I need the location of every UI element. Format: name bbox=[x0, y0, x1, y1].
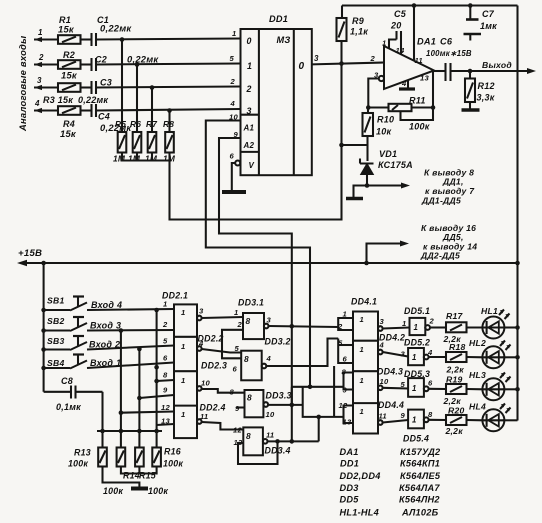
node row1/R5 bbox=[120, 37, 125, 42]
wire output line bbox=[451, 70, 529, 72]
svg-text:9: 9 bbox=[343, 386, 348, 395]
DD3.1 cross input wire bbox=[222, 330, 243, 359]
svg-text:V: V bbox=[249, 161, 255, 170]
svg-text:Вход 3: Вход 3 bbox=[90, 321, 121, 331]
NAND gate DD3.4 bbox=[243, 427, 263, 455]
resistor R1 15k bbox=[58, 35, 81, 44]
resistor R14 100k bbox=[117, 448, 126, 467]
svg-text:DD2.4: DD2.4 bbox=[200, 403, 226, 413]
input arrow 4 bbox=[34, 109, 58, 111]
svg-text:20: 20 bbox=[390, 21, 402, 31]
wire R13 bottom to ground bbox=[103, 467, 140, 488]
svg-text:DA1: DA1 bbox=[417, 37, 436, 47]
svg-text:0,22мк: 0,22мк bbox=[100, 23, 132, 34]
svg-text:ДД1,: ДД1, bbox=[442, 177, 464, 187]
+15V rail bbox=[26, 262, 518, 264]
wire R14-R16 bottoms bbox=[121, 467, 157, 474]
svg-text:12: 12 bbox=[233, 426, 242, 435]
svg-text:DD5.1: DD5.1 bbox=[404, 306, 430, 316]
gate DD4.3 output pin 10 bbox=[378, 386, 383, 391]
svg-text:SB3: SB3 bbox=[47, 336, 64, 346]
svg-text:8: 8 bbox=[247, 393, 252, 403]
resistor R19 2.2k bbox=[446, 384, 467, 394]
svg-text:SB2: SB2 bbox=[47, 316, 64, 326]
svg-text:C7: C7 bbox=[482, 9, 495, 19]
NOR gates DD4 K564LE5 bbox=[353, 312, 378, 434]
svg-text:R5: R5 bbox=[115, 119, 126, 129]
wire pin3 to feedback node bbox=[368, 79, 379, 108]
svg-text:Вход 4: Вход 4 bbox=[91, 300, 122, 310]
svg-text:ДД2-ДД5: ДД2-ДД5 bbox=[420, 251, 460, 261]
op-amp DA1 K157UD2 bbox=[384, 46, 434, 89]
NAND gate DD3.3 bbox=[245, 390, 264, 417]
DD4 input bar pins 5,6 bbox=[338, 344, 353, 346]
inverter DD5.4 bbox=[408, 410, 424, 429]
svg-text:6: 6 bbox=[343, 355, 348, 364]
svg-text:C5: C5 bbox=[394, 9, 407, 19]
svg-text:9: 9 bbox=[163, 386, 168, 395]
svg-text:13: 13 bbox=[343, 418, 352, 427]
svg-text:C3: C3 bbox=[100, 78, 112, 88]
DD4 input bar pins 8,9 bbox=[344, 373, 354, 390]
svg-text:100к: 100к bbox=[148, 486, 168, 496]
svg-text:5: 5 bbox=[338, 339, 343, 348]
svg-text:DD3: DD3 bbox=[340, 483, 359, 493]
input arrow 3 bbox=[34, 86, 58, 88]
top supply rail bbox=[342, 4, 518, 6]
svg-text:1: 1 bbox=[232, 29, 236, 38]
svg-text:8: 8 bbox=[163, 371, 168, 380]
multiplexer DD1 K564KP1 bbox=[241, 29, 312, 175]
svg-text:1: 1 bbox=[414, 323, 419, 332]
capacitor C8 0.1uF bbox=[44, 391, 71, 393]
svg-text:1: 1 bbox=[234, 308, 238, 317]
svg-text:0: 0 bbox=[247, 36, 252, 46]
svg-text:HL1: HL1 bbox=[481, 306, 498, 316]
svg-text:3: 3 bbox=[380, 317, 385, 326]
wire column C row3 to pin9/R15 bbox=[137, 347, 142, 352]
svg-text:10: 10 bbox=[201, 379, 210, 388]
svg-text:100к: 100к bbox=[163, 459, 183, 469]
wire SB1 row to DD2 pin1 bbox=[87, 309, 174, 310]
svg-text:0,1мк: 0,1мк bbox=[56, 402, 81, 412]
resistor R11 100k feedback bbox=[368, 106, 388, 108]
svg-text:1: 1 bbox=[412, 384, 417, 393]
svg-text:6: 6 bbox=[163, 354, 168, 363]
svg-text:1: 1 bbox=[38, 28, 43, 37]
svg-text:15к: 15к bbox=[61, 70, 78, 81]
svg-text:DD5.2: DD5.2 bbox=[404, 338, 430, 348]
svg-text:R9: R9 bbox=[352, 16, 364, 26]
svg-text:R11: R11 bbox=[409, 96, 426, 106]
svg-text:1: 1 bbox=[382, 39, 386, 48]
svg-text:2: 2 bbox=[337, 322, 343, 331]
svg-text:Аналоговые входы: Аналоговые входы bbox=[17, 36, 28, 132]
resistor R12 3.3k bbox=[469, 71, 471, 79]
LED HL1 AL102B bbox=[482, 317, 504, 339]
arrow to DD supply pins 8/7 bbox=[367, 184, 402, 186]
button SB2 bbox=[41, 328, 46, 333]
gate DD4.1 output pin 3 bbox=[378, 326, 383, 331]
svg-text:DA1: DA1 bbox=[340, 447, 359, 457]
svg-text:1: 1 bbox=[181, 410, 185, 419]
svg-text:C6: C6 bbox=[440, 37, 453, 47]
svg-text:10к: 10к bbox=[376, 127, 392, 137]
gate DD4.2 output pin 4 bbox=[378, 350, 383, 355]
svg-text:11: 11 bbox=[415, 56, 423, 65]
capacitor C7 1uF bbox=[468, 3, 473, 8]
wire A1 junction horizontal bbox=[292, 386, 344, 388]
svg-text:13: 13 bbox=[161, 417, 170, 426]
DD4 input bar pins 12,13 bbox=[344, 406, 354, 424]
wire rail to op-amp pin 11 bbox=[412, 3, 417, 8]
svg-text:1: 1 bbox=[412, 353, 417, 362]
svg-text:8: 8 bbox=[246, 431, 251, 441]
LED HL3 bbox=[482, 378, 504, 400]
capacitor C6 100uF output coupling bbox=[434, 70, 446, 72]
wire DD3.4 out riser bbox=[318, 417, 320, 442]
svg-text:R15: R15 bbox=[139, 471, 156, 481]
svg-text:2: 2 bbox=[370, 54, 376, 63]
svg-text:100к: 100к bbox=[68, 459, 88, 469]
svg-text:3: 3 bbox=[199, 307, 204, 316]
svg-text:C8: C8 bbox=[61, 376, 73, 386]
resistor R8 1M bbox=[165, 132, 174, 153]
svg-text:1: 1 bbox=[360, 376, 364, 385]
svg-text:15к: 15к bbox=[58, 24, 75, 35]
NAND gate DD3.2 bbox=[241, 351, 262, 381]
svg-text:DD4.2: DD4.2 bbox=[379, 333, 405, 343]
svg-text:HL1-HL4: HL1-HL4 bbox=[340, 508, 380, 518]
svg-text:3: 3 bbox=[314, 54, 319, 63]
svg-text:C2: C2 bbox=[95, 55, 107, 65]
wire row1 to DD1 pin 1 bbox=[96, 39, 241, 40]
button SB1 bbox=[41, 308, 46, 313]
svg-text:C4: C4 bbox=[98, 112, 110, 122]
svg-text:5: 5 bbox=[401, 380, 406, 389]
resistor R17 2.2k bbox=[446, 322, 467, 332]
wire row2 to DD1 pin 5 bbox=[96, 64, 241, 65]
op-amp pin 4 ground bbox=[407, 81, 409, 89]
svg-text:1: 1 bbox=[181, 308, 185, 317]
svg-text:2: 2 bbox=[237, 320, 243, 329]
NOR gates DD2 K564LE5 bbox=[174, 304, 197, 438]
svg-text:R3 15к: R3 15к bbox=[43, 95, 73, 105]
capacitor C4 0.22uF bbox=[81, 109, 92, 111]
svg-text:1: 1 bbox=[163, 300, 167, 309]
capacitor C1 0.22uF bbox=[81, 38, 92, 40]
resistor R2 15k bbox=[58, 60, 81, 69]
svg-text:6: 6 bbox=[233, 365, 238, 374]
svg-text:DD3.1: DD3.1 bbox=[238, 298, 264, 308]
wire R10 to VD1 bbox=[366, 136, 368, 161]
svg-text:+15В: +15В bbox=[18, 248, 42, 259]
wire DD1 output to op-amp bbox=[312, 63, 384, 65]
op-amp inverting input circle pin 3 bbox=[379, 76, 384, 81]
node row2/R6 bbox=[135, 62, 140, 67]
svg-text:ДД5,: ДД5, bbox=[442, 232, 464, 242]
svg-text:А1: А1 bbox=[243, 124, 255, 133]
svg-text:К564ЛЕ5: К564ЛЕ5 bbox=[400, 471, 441, 481]
svg-text:R8: R8 bbox=[163, 119, 174, 129]
svg-text:АЛ102Б: АЛ102Б bbox=[401, 508, 439, 518]
resistor R3 15k bbox=[58, 83, 81, 92]
SB supply bus bbox=[41, 261, 46, 266]
svg-text:3,3к: 3,3к bbox=[477, 93, 495, 103]
ground buttons divider bbox=[131, 487, 148, 491]
svg-text:5: 5 bbox=[230, 54, 235, 63]
wire row4 to DD1 pin 4 bbox=[96, 109, 241, 111]
right supply rail bbox=[516, 6, 518, 421]
wire bias bus to VD1 node bbox=[170, 145, 342, 220]
inverter DD5.1 K564LN2 bbox=[410, 318, 426, 335]
ground VD1 bbox=[354, 186, 368, 198]
svg-text:DD5.4: DD5.4 bbox=[403, 434, 429, 444]
resistor R9 1.1k bbox=[341, 6, 343, 19]
R11 wiper loop bbox=[401, 108, 434, 121]
svg-text:0,22мк: 0,22мк bbox=[78, 95, 108, 105]
wire SB3 row to DD2 pin5 bbox=[87, 346, 174, 350]
wire A2 down segment bbox=[291, 387, 293, 442]
resistor R10 10k bbox=[367, 108, 369, 114]
svg-text:МЗ: МЗ bbox=[277, 35, 291, 45]
svg-text:10: 10 bbox=[380, 377, 389, 386]
svg-text:8: 8 bbox=[244, 354, 249, 364]
svg-text:4: 4 bbox=[401, 79, 407, 88]
input arrow 2 bbox=[34, 63, 58, 65]
svg-text:DD1: DD1 bbox=[340, 459, 359, 469]
svg-text:12: 12 bbox=[161, 403, 170, 412]
wire SB2 row to DD2 pin2 bbox=[87, 329, 174, 332]
svg-text:3: 3 bbox=[37, 76, 42, 85]
LED HL4 bbox=[482, 409, 504, 431]
svg-text:2: 2 bbox=[230, 77, 236, 86]
svg-text:DD4.3: DD4.3 bbox=[377, 367, 403, 377]
svg-text:2: 2 bbox=[162, 320, 168, 329]
svg-text:100к: 100к bbox=[409, 122, 430, 132]
svg-text:4: 4 bbox=[230, 99, 236, 108]
svg-text:10: 10 bbox=[266, 410, 275, 419]
svg-text:8: 8 bbox=[246, 316, 251, 326]
DD3.4 output pin 11 bbox=[263, 439, 268, 444]
svg-text:1: 1 bbox=[360, 345, 364, 354]
input arrow 1 bbox=[34, 38, 58, 40]
svg-text:100мк∗15В: 100мк∗15В bbox=[426, 49, 472, 58]
wire DD1 A1 pin10 bbox=[206, 121, 310, 388]
resistor R13 100k bbox=[98, 448, 107, 467]
wire R5-R8 bottom bus bbox=[122, 153, 170, 161]
gate DD2.2 output pin 4 bbox=[197, 346, 202, 351]
svg-text:SB1: SB1 bbox=[47, 296, 64, 306]
NAND gate DD3.1 K564LA7 bbox=[243, 313, 264, 339]
svg-text:4: 4 bbox=[34, 99, 40, 108]
svg-text:HL3: HL3 bbox=[469, 370, 486, 380]
svg-text:DD3.3: DD3.3 bbox=[266, 391, 292, 401]
DD4 input bar pins 1,2 bbox=[338, 318, 353, 330]
svg-text:15к: 15к bbox=[60, 128, 77, 139]
ground R12 bbox=[462, 108, 480, 112]
node VD1 anode bbox=[365, 183, 370, 188]
svg-text:R19: R19 bbox=[446, 375, 463, 385]
svg-text:1М: 1М bbox=[128, 154, 141, 164]
svg-text:R17: R17 bbox=[446, 311, 463, 321]
svg-text:1: 1 bbox=[360, 407, 364, 416]
arrow to DD supply pins 16/14 bbox=[367, 244, 402, 264]
wire row3 to DD1 pin 2 bbox=[96, 87, 241, 88]
svg-text:5: 5 bbox=[235, 344, 240, 353]
svg-text:1: 1 bbox=[181, 376, 185, 385]
svg-text:1мк: 1мк bbox=[480, 21, 497, 31]
svg-text:9: 9 bbox=[401, 411, 406, 420]
svg-text:1: 1 bbox=[181, 342, 185, 351]
button SB4 bbox=[41, 366, 46, 371]
svg-text:Выход: Выход bbox=[482, 60, 512, 70]
svg-text:1: 1 bbox=[412, 416, 417, 425]
resistor R5 1M bbox=[118, 132, 127, 153]
resistor R7 1M bbox=[148, 132, 157, 153]
svg-text:К564КП1: К564КП1 bbox=[400, 459, 440, 469]
DD3.3 output pin 10 bbox=[264, 402, 269, 407]
DD3.3 input pin9 stub bbox=[236, 406, 245, 408]
svg-text:1: 1 bbox=[360, 315, 364, 324]
svg-text:0,22мк: 0,22мк bbox=[127, 54, 159, 65]
svg-text:2,2к: 2,2к bbox=[446, 365, 465, 375]
svg-text:13: 13 bbox=[420, 74, 429, 83]
gate DD2.3 output pin 10 bbox=[197, 386, 202, 391]
svg-text:6: 6 bbox=[428, 379, 433, 388]
svg-text:4: 4 bbox=[427, 348, 433, 357]
resistor R16 100k bbox=[152, 448, 161, 467]
svg-text:2: 2 bbox=[38, 53, 44, 62]
DD3.1 output pin 3 bbox=[264, 324, 269, 329]
capacitor C3 0.22uF bbox=[81, 86, 92, 88]
gate DD4.4 output pin 11 bbox=[378, 420, 383, 425]
svg-text:100к: 100к bbox=[103, 486, 123, 496]
svg-text:к выводу 7: к выводу 7 bbox=[425, 186, 475, 196]
svg-text:11: 11 bbox=[200, 412, 208, 421]
resistor R20 2.2k bbox=[446, 415, 467, 425]
wire SB4 row to DD2 pin6 bbox=[87, 363, 174, 369]
svg-text:К564ЛН2: К564ЛН2 bbox=[399, 495, 440, 505]
svg-text:5: 5 bbox=[163, 337, 168, 346]
svg-text:1,1к: 1,1к bbox=[350, 27, 368, 37]
wire column D row1 to pin8/pin13/R16 bbox=[154, 308, 159, 313]
svg-text:4: 4 bbox=[266, 354, 272, 363]
svg-text:1М: 1М bbox=[113, 154, 126, 164]
svg-text:DD4.1: DD4.1 bbox=[351, 297, 377, 307]
svg-text:2: 2 bbox=[246, 84, 252, 94]
svg-text:3: 3 bbox=[267, 316, 272, 325]
wire column B row2 to pin12/R14 bbox=[119, 328, 124, 333]
wire DD3.3 out down-right bbox=[303, 387, 344, 417]
svg-text:DD5.3: DD5.3 bbox=[404, 369, 430, 379]
ground DD1 bbox=[222, 190, 246, 194]
wire DD1 pin6 to ground bbox=[232, 163, 235, 191]
capacitor C2 0.22uF bbox=[81, 63, 92, 65]
svg-text:R18: R18 bbox=[449, 342, 466, 352]
svg-text:0: 0 bbox=[299, 61, 305, 72]
svg-text:R13: R13 bbox=[74, 448, 91, 458]
svg-text:R12: R12 bbox=[478, 81, 495, 91]
svg-text:R16: R16 bbox=[164, 447, 181, 457]
svg-text:SB4: SB4 bbox=[47, 358, 64, 368]
resistor R15 100k bbox=[135, 448, 144, 467]
svg-text:2,2к: 2,2к bbox=[443, 396, 462, 406]
button SB3 bbox=[41, 347, 46, 352]
inverter DD5.3 bbox=[408, 378, 424, 397]
resistor R18 2.2k bbox=[446, 352, 467, 362]
svg-text:11: 11 bbox=[266, 431, 274, 440]
svg-text:DD4.4: DD4.4 bbox=[378, 400, 404, 410]
svg-text:DD2,DD4: DD2,DD4 bbox=[340, 471, 381, 481]
svg-text:2,2к: 2,2к bbox=[445, 426, 464, 436]
svg-text:8: 8 bbox=[230, 388, 235, 397]
DD3.4 pin13 feedback loop bbox=[238, 441, 278, 464]
svg-text:К157УД2: К157УД2 bbox=[400, 447, 441, 457]
resistor R4 15k bbox=[58, 106, 81, 115]
svg-text:VD1: VD1 bbox=[379, 149, 397, 159]
svg-text:1: 1 bbox=[402, 319, 406, 328]
svg-text:КС175А: КС175А bbox=[378, 160, 413, 170]
svg-text:3: 3 bbox=[401, 350, 406, 359]
svg-text:HL2: HL2 bbox=[469, 338, 486, 348]
LED HL2 bbox=[482, 346, 504, 368]
svg-text:А2: А2 bbox=[243, 141, 255, 150]
capacitor C5 20 correction bbox=[389, 40, 397, 49]
svg-text:К564ЛА7: К564ЛА7 bbox=[399, 483, 440, 493]
svg-text:R10: R10 bbox=[377, 115, 394, 125]
svg-text:1: 1 bbox=[343, 310, 347, 319]
DD3.2 output pin 4 bbox=[262, 364, 267, 369]
svg-text:HL4: HL4 bbox=[469, 402, 486, 412]
gate DD2.1 output pin 3 bbox=[197, 316, 202, 321]
gate DD2.4 output pin 11 bbox=[197, 419, 202, 424]
svg-text:R6: R6 bbox=[130, 119, 141, 129]
node row3/R7 bbox=[150, 85, 155, 90]
node row4/R8 bbox=[167, 108, 172, 113]
svg-text:6: 6 bbox=[230, 152, 235, 161]
svg-text:11: 11 bbox=[379, 412, 387, 421]
svg-text:DD5: DD5 bbox=[340, 495, 360, 505]
DD1 pin6 V inversion circle bbox=[235, 161, 240, 166]
svg-text:12: 12 bbox=[339, 401, 348, 410]
resistor R6 1M bbox=[133, 132, 142, 153]
zener VD1 KS175A bbox=[360, 163, 374, 165]
svg-text:R20: R20 bbox=[448, 406, 465, 416]
resistor bus bbox=[97, 430, 162, 432]
svg-text:8: 8 bbox=[342, 368, 347, 377]
svg-text:DD2.2: DD2.2 bbox=[198, 334, 224, 344]
svg-text:DD3.2: DD3.2 bbox=[265, 337, 291, 347]
wire DD1 A2 pin9 bbox=[219, 138, 292, 405]
svg-text:DD2.3: DD2.3 bbox=[201, 361, 227, 371]
svg-text:8: 8 bbox=[428, 410, 433, 419]
svg-text:R14: R14 bbox=[123, 471, 140, 481]
svg-text:R2: R2 bbox=[63, 50, 75, 60]
svg-text:3: 3 bbox=[247, 106, 252, 116]
wire column A to R13 bbox=[101, 392, 103, 448]
inverter DD5.2 bbox=[408, 348, 424, 365]
wire R9 to bias node bbox=[340, 41, 342, 145]
svg-text:R7: R7 bbox=[146, 119, 157, 129]
node signal/R9 bbox=[339, 61, 344, 66]
svg-text:1: 1 bbox=[247, 61, 252, 71]
svg-text:ДД1-ДД5: ДД1-ДД5 bbox=[421, 196, 461, 206]
DD3.2 output branch down bbox=[333, 366, 335, 417]
svg-text:2: 2 bbox=[429, 317, 435, 326]
svg-text:DD1: DD1 bbox=[269, 14, 288, 24]
